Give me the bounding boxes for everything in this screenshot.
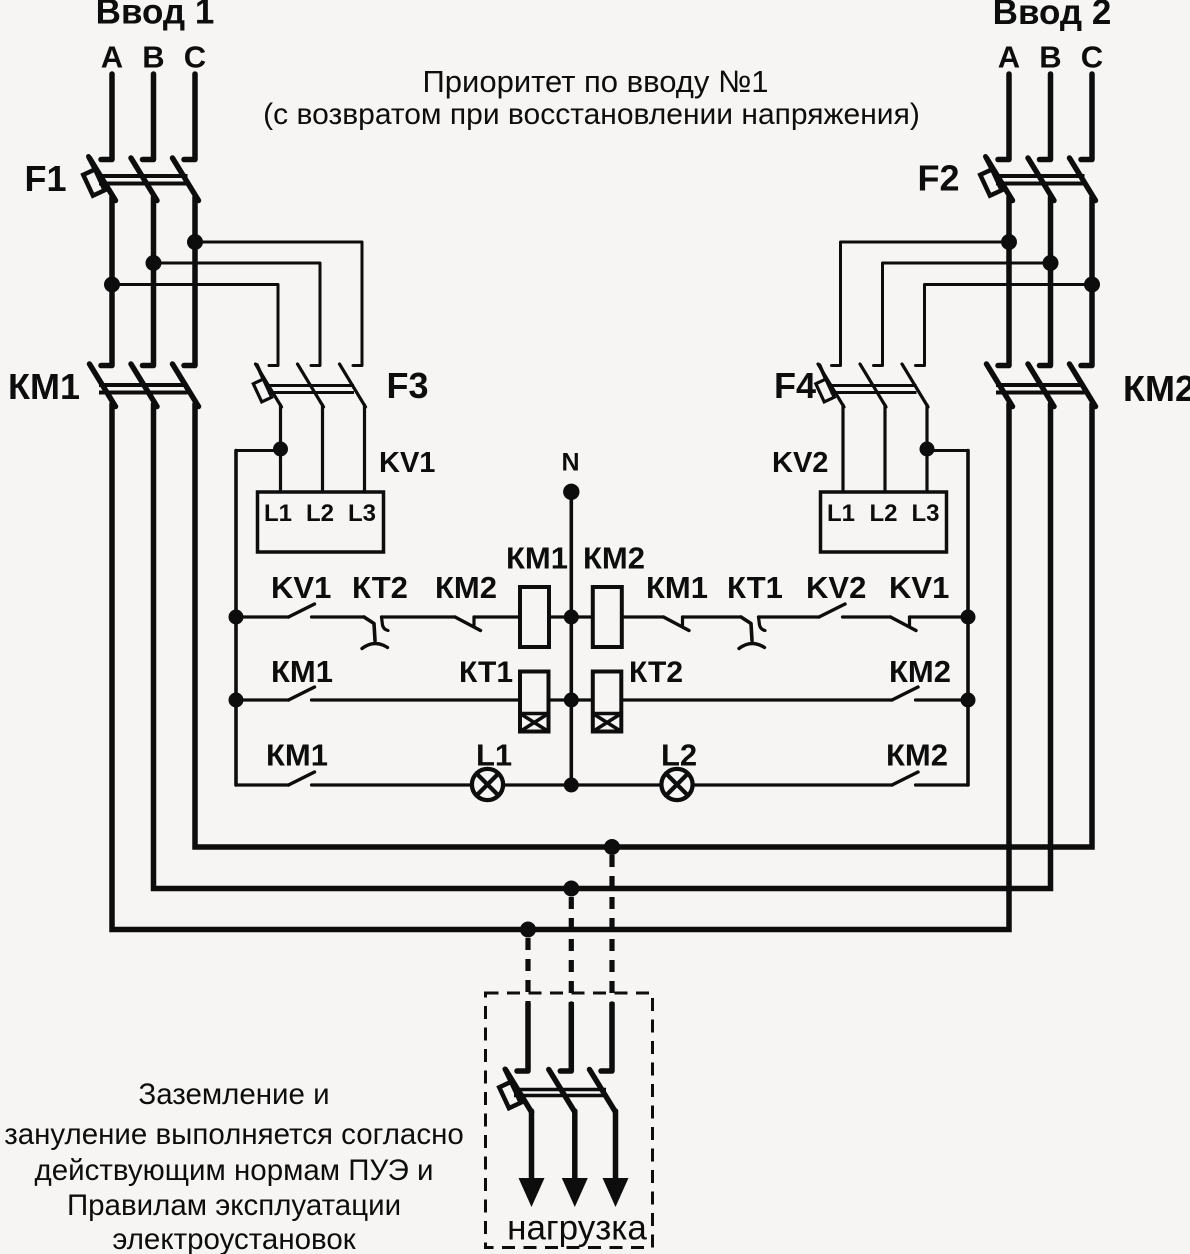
svg-text:КМ2: КМ2 <box>1123 368 1190 409</box>
svg-text:F3: F3 <box>387 365 429 406</box>
svg-text:С: С <box>184 40 206 75</box>
svg-text:действующим нормам ПУЭ и: действующим нормам ПУЭ и <box>35 1154 434 1187</box>
svg-text:КТ2: КТ2 <box>629 656 683 689</box>
svg-text:F4: F4 <box>774 365 816 406</box>
svg-text:Заземление и: Заземление и <box>138 1078 329 1111</box>
svg-text:KV2: KV2 <box>806 570 866 605</box>
svg-text:КМ1: КМ1 <box>646 570 708 605</box>
svg-text:КТ1: КТ1 <box>727 570 783 605</box>
svg-text:Ввод 2: Ввод 2 <box>993 0 1112 32</box>
svg-text:В: В <box>1039 40 1061 75</box>
svg-text:L1: L1 <box>264 500 292 527</box>
svg-text:КМ1: КМ1 <box>506 541 568 576</box>
svg-text:С: С <box>1081 40 1103 75</box>
svg-text:КТ2: КТ2 <box>352 570 408 605</box>
svg-text:КМ1: КМ1 <box>266 738 328 773</box>
svg-text:электроустановок: электроустановок <box>112 1223 356 1254</box>
svg-text:А: А <box>101 40 123 75</box>
svg-text:нагрузка: нагрузка <box>507 1209 647 1248</box>
svg-text:KV1: KV1 <box>379 447 435 479</box>
svg-text:КМ2: КМ2 <box>889 654 951 689</box>
svg-text:L2: L2 <box>661 738 697 773</box>
svg-text:L3: L3 <box>911 500 939 527</box>
svg-text:F1: F1 <box>25 158 67 199</box>
svg-text:КМ1: КМ1 <box>8 366 80 407</box>
svg-text:L1: L1 <box>827 500 855 527</box>
svg-text:KV2: KV2 <box>772 447 828 479</box>
svg-text:Правилам эксплуатации: Правилам эксплуатации <box>67 1189 401 1222</box>
svg-text:N: N <box>561 449 579 477</box>
svg-text:зануление выполняется согласно: зануление выполняется согласно <box>4 1118 464 1151</box>
svg-text:КМ1: КМ1 <box>271 654 333 689</box>
svg-text:КТ1: КТ1 <box>459 656 513 689</box>
svg-text:L2: L2 <box>306 500 334 527</box>
svg-text:(с возвратом при восстановлени: (с возвратом при восстановлении напряжен… <box>263 98 920 131</box>
svg-text:L3: L3 <box>348 500 376 527</box>
svg-text:КМ2: КМ2 <box>435 570 497 605</box>
svg-text:L1: L1 <box>476 738 512 773</box>
svg-text:F2: F2 <box>918 158 960 199</box>
svg-text:KV1: KV1 <box>271 570 331 605</box>
svg-text:L2: L2 <box>869 500 897 527</box>
svg-text:А: А <box>998 40 1020 75</box>
svg-text:Ввод 1: Ввод 1 <box>96 0 215 32</box>
svg-text:В: В <box>142 40 164 75</box>
svg-text:КМ2: КМ2 <box>886 738 948 773</box>
svg-text:Приоритет по вводу №1: Приоритет по вводу №1 <box>423 64 769 99</box>
svg-text:KV1: KV1 <box>889 570 949 605</box>
svg-text:КМ2: КМ2 <box>583 541 645 576</box>
